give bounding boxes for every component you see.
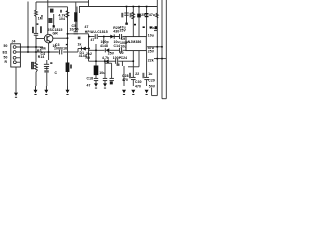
wire stub x=122.4: [121, 61, 123, 66]
capacitor C1 plates (x=36): [34, 33, 38, 35]
label R2 blob: [50, 9, 54, 13]
capacitor C10 body (x=139): [137, 14, 141, 18]
wire input cap bottom (x=36): [35, 36, 37, 63]
diode D1 bar: [80, 47, 82, 51]
capacitor C15 plates (y=36.5): [120, 34, 122, 39]
wire rail1-rail2 link (x=88.5): [88, 0, 90, 7]
wire right bus 2 (x=162): [161, 0, 163, 99]
text labels: [3, 13, 156, 89]
capacitor C20 plates (x=96): [94, 78, 98, 80]
capacitor C7 plates (x=46.8): [44, 64, 49, 68]
wire R1 bottom (x=36): [35, 17, 37, 34]
label C7 value blob: [44, 70, 49, 72]
wire vertical bus B (x=88.5): [88, 34, 90, 61]
svg-text:C30: C30: [135, 80, 142, 84]
wire Q1 emitter: [48, 43, 50, 60]
diode D2 bar: [113, 34, 115, 38]
svg-text:1u: 1u: [148, 72, 152, 76]
wire IC input upper after C12: [98, 36, 119, 38]
svg-text:R9: R9: [86, 56, 91, 60]
diode D4 body (y=61.2): [105, 59, 109, 63]
label C29 (vertical): [142, 73, 144, 78]
wire Q1 base: [36, 38, 44, 40]
resistor R4 body (x=75.8): [74, 12, 77, 22]
wire IC input upper y=36.5: [89, 36, 95, 38]
wire IC pin up 2 (x=139): [138, 7, 140, 37]
wire input cap top (x=36): [35, 2, 37, 10]
wire IC input upper after C15: [122, 36, 126, 38]
volume VR1 body (x=67.5): [66, 63, 70, 73]
wire top rail V+ lower: [79, 6, 157, 8]
svg-text:GR: GR: [53, 31, 59, 35]
diode D3 bar: [104, 48, 106, 52]
diode D2 body: [110, 35, 114, 39]
capacitor C16 plates (x=126.5): [124, 13, 128, 15]
svg-text:C: C: [55, 71, 58, 75]
connector J1 contact 4: [13, 61, 16, 64]
svg-text:50: 50: [4, 56, 8, 60]
svg-text:22: 22: [135, 72, 139, 76]
svg-text:1M: 1M: [38, 17, 43, 21]
diode D3: [106, 48, 110, 52]
connector J1 box: [11, 44, 21, 67]
capacitor C21 plates (x=105): [103, 78, 107, 80]
svg-text:47: 47: [87, 84, 91, 88]
resistor R1 zigzag (x=36): [35, 10, 38, 17]
svg-text:50: 50: [4, 44, 8, 48]
capacitor C5 plates (x=75.8): [74, 32, 78, 34]
wire stub bottom right: [151, 88, 153, 96]
diode D4 bar: [104, 59, 106, 63]
wire Q2 drop (x=96): [95, 44, 97, 78]
capacitor C14 plates (y=61.2): [116, 59, 118, 64]
wire bottom bar: [162, 98, 166, 100]
svg-text:10u: 10u: [148, 33, 154, 37]
label C30 (vertical): [129, 73, 131, 78]
label C16 (vertical): [121, 13, 123, 18]
wire diode D1 y=48.5: [78, 48, 89, 50]
wire vertical feedback line (x=28): [27, 2, 29, 53]
label C1 value (vertical): [32, 27, 34, 33]
wire zobel drop (x=111.6): [111, 63, 113, 78]
wire jack tip y=47: [16, 46, 43, 48]
ground bias: [66, 86, 70, 93]
svg-text:10/50: 10/50: [70, 28, 79, 32]
svg-text:100P: 100P: [113, 56, 122, 60]
wire IC input lower after C24: [122, 49, 126, 51]
wire IC input lower y=50.3: [89, 49, 105, 51]
capacitor C12 plates (y=36.5): [95, 34, 97, 39]
wire IC pin down 2 (x=139): [138, 51, 140, 67]
wire IC pin up 3 (x=146.6): [146, 7, 148, 37]
connector J1 contact 1: [13, 46, 16, 49]
wire IC output y=46.8: [147, 46, 162, 48]
svg-text:16: 16: [53, 44, 57, 48]
svg-text:47: 47: [85, 25, 89, 29]
svg-text:430: 430: [113, 30, 119, 34]
wire Q1 right y=38.2: [53, 37, 68, 39]
svg-text:25V: 25V: [148, 50, 155, 54]
svg-text:HP/AU-C1815: HP/AU-C1815: [85, 30, 108, 34]
node C22 bottom blob: [110, 81, 113, 84]
label R12 (vertical): [32, 62, 34, 69]
resistor R3 (x=67.5 zigzag): [66, 11, 69, 18]
wire IC pin up 1 (x=133.3): [132, 7, 134, 37]
svg-text:1k: 1k: [78, 43, 82, 47]
node dots: [27, 6, 163, 62]
resistor R6 marks (x=155.5 zigzag): [156, 13, 159, 18]
wire output y=61.2 right: [118, 60, 133, 62]
wire after C6 y=52: [63, 51, 78, 53]
wire R12 bottom (x=36): [35, 72, 37, 86]
wire rail2 corner stub (x=79.5): [79, 7, 81, 14]
wire emitter resistor lower: [46, 60, 48, 64]
ground jack shield: [14, 93, 18, 96]
transistor Q1 emitter arrow: [49, 40, 51, 42]
wire top rail V+ upper: [36, 1, 89, 3]
label C7 plus mark: [50, 62, 52, 64]
wire IC pin down 3b: [146, 80, 148, 86]
wire jack ground drop: [15, 67, 17, 93]
svg-text:10u: 10u: [149, 26, 155, 30]
svg-text:470: 470: [135, 85, 141, 89]
transistor Q1 body: [44, 34, 53, 43]
wire corner x=78: [77, 49, 79, 53]
wire output y=61.2 left: [89, 60, 105, 62]
svg-text:47u: 47u: [149, 13, 155, 17]
label C14 plus mark: [117, 64, 120, 66]
connector J1 contact 3: [13, 56, 16, 59]
capacitor C29 plates (x=146.6): [144, 77, 149, 79]
wire C16 drop (x=126.5): [126, 7, 128, 24]
svg-text:50V: 50V: [149, 85, 156, 89]
capacitor C22 plates (x=111.6): [110, 78, 114, 80]
connector J1 stub 4: [16, 61, 20, 63]
svg-text:C29: C29: [148, 79, 155, 83]
wire IC input lower mid: [109, 49, 119, 51]
label mark x60: [60, 10, 62, 13]
ground Q2: [94, 81, 98, 87]
wire right bus 1 (x=157.3): [156, 0, 158, 96]
svg-text:R14: R14: [38, 55, 45, 59]
svg-text:10u: 10u: [99, 71, 105, 75]
svg-text:2k2: 2k2: [86, 52, 92, 56]
label R5 blob: [48, 18, 52, 23]
connector J1 stub 3: [16, 57, 20, 59]
connector J1 contact 2: [13, 51, 16, 54]
svg-text:R3: R3: [37, 49, 42, 53]
svg-text:47: 47: [91, 38, 95, 42]
wire R2 drop (x=53): [53, 14, 55, 27]
wire zobel y=63.2: [105, 62, 112, 64]
ground C29: [145, 90, 149, 93]
resistor R9 (x=96): [94, 66, 99, 76]
svg-text:4148: 4148: [100, 44, 108, 48]
wire IC pin down 3 (x=146.6): [146, 51, 148, 78]
svg-text:25V: 25V: [120, 29, 127, 33]
wire emitter resistor lower b: [46, 67, 48, 87]
svg-text:C24: C24: [121, 56, 128, 60]
wire bias line (x=67.5): [67, 7, 69, 86]
label C6 blob: [78, 37, 81, 40]
svg-text:C18: C18: [87, 77, 94, 81]
label 473 (vertical): [40, 26, 42, 33]
label R8 (vertical): [130, 13, 132, 18]
wire R4 bottom stub: [75, 22, 77, 32]
wire Q1 collector: [47, 0, 49, 34]
ground bars: [15, 88, 148, 98]
svg-text:4.7k: 4.7k: [102, 56, 109, 60]
diode D1 body: [82, 47, 86, 51]
wire corner y=30.6: [154, 30, 157, 32]
wire zobel tick: [106, 61, 108, 63]
wire C21 drop: [104, 61, 106, 78]
IC U1 box: [126, 37, 146, 51]
wire speaker y=58.6: [154, 58, 166, 60]
svg-text:22k: 22k: [148, 59, 154, 63]
svg-text:470: 470: [122, 78, 128, 82]
svg-text:R: R: [5, 60, 8, 64]
wire rail stub y=6.8: [48, 6, 68, 8]
node C16 bottom blob: [125, 23, 128, 25]
wire jack ring y=52: [16, 51, 59, 53]
wire IC pin down 1 (x=133.3): [132, 51, 134, 78]
capacitor C24 plates (y=50.3): [120, 48, 122, 53]
svg-text:10: 10: [120, 51, 124, 55]
capacitor C30 plates (x=133.3): [131, 77, 136, 79]
svg-text:25: 25: [141, 13, 145, 17]
wire R4 drop (x=77): [76, 7, 78, 31]
resistor R12 zigzag (x=36): [35, 62, 38, 72]
ground emitter: [44, 86, 48, 93]
ground C30: [131, 90, 135, 93]
label VR1 mark: [70, 65, 72, 69]
node stub x=103.8: [103, 37, 105, 45]
wire R4 top stub: [75, 2, 77, 12]
svg-text:104: 104: [59, 17, 65, 21]
ground C1 line: [34, 86, 38, 93]
svg-text:NJM386: NJM386: [128, 40, 142, 44]
capacitor C11 plates (x=146.6): [145, 13, 149, 15]
ground C21: [103, 81, 107, 87]
wire y=66.8: [128, 66, 139, 68]
ground C28: [122, 90, 126, 93]
wire bottom right y=95.6: [152, 95, 158, 97]
svg-text:8Ω: 8Ω: [3, 51, 8, 55]
resistor R8 (x=133.3 zigzag): [132, 12, 135, 19]
svg-text:10u: 10u: [120, 45, 126, 49]
svg-text:J4: J4: [12, 39, 16, 43]
wire C28 drop (x=124): [123, 66, 125, 86]
wire output y=61.2 mid: [109, 60, 116, 62]
wire node A y=33.8: [68, 33, 89, 35]
wire right bus 3 (x=166.3): [165, 0, 167, 99]
wire IC pin down 1b: [132, 80, 134, 86]
capacitor C6 plates (y=52): [59, 50, 61, 55]
